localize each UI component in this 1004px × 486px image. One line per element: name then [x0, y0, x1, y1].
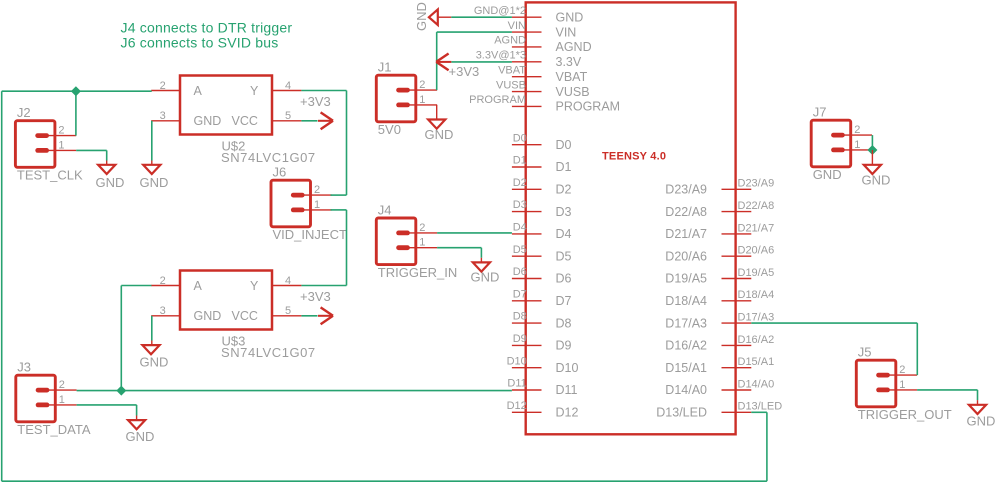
svg-text:3: 3	[160, 305, 166, 317]
svg-text:GND: GND	[194, 309, 222, 323]
svg-text:5V0: 5V0	[378, 122, 401, 137]
svg-text:GND: GND	[126, 429, 155, 444]
wire J5.1 to GND	[917, 390, 977, 405]
svg-text:3: 3	[160, 110, 166, 122]
svg-text:D3: D3	[556, 205, 572, 219]
teensy pin D19/A5	[665, 267, 774, 286]
teensy pin VBAT	[498, 64, 588, 83]
svg-text:D14/A0: D14/A0	[665, 383, 707, 397]
svg-text:D22/A8: D22/A8	[665, 205, 707, 219]
svg-text:VIN: VIN	[556, 25, 577, 39]
svg-text:D20/A6: D20/A6	[738, 245, 775, 257]
connector J4	[376, 203, 457, 280]
ground at J1	[425, 120, 454, 143]
svg-text:D5: D5	[556, 249, 572, 263]
svg-text:+3V3: +3V3	[300, 289, 331, 304]
svg-text:D23/A9: D23/A9	[665, 183, 707, 197]
svg-text:D0: D0	[556, 138, 572, 152]
svg-text:A: A	[194, 84, 203, 98]
svg-text:VCC: VCC	[232, 309, 258, 323]
ground at J4	[471, 262, 500, 284]
svg-text:2: 2	[899, 364, 905, 376]
svg-text:D10: D10	[556, 361, 579, 375]
svg-text:J4 connects to DTR trigger: J4 connects to DTR trigger	[121, 19, 293, 35]
svg-text:2: 2	[419, 222, 425, 234]
wire VIN to J1.2	[437, 32, 512, 90]
svg-text:D1: D1	[556, 160, 572, 174]
teensy pin AGND	[494, 35, 591, 54]
ground at J5	[967, 405, 996, 429]
connector J1	[376, 60, 437, 137]
teensy U1 box	[526, 2, 736, 434]
wire junction to J2.2	[75, 91, 77, 135]
svg-text:+3V3: +3V3	[449, 64, 480, 79]
svg-text:D19/A5: D19/A5	[665, 272, 707, 286]
svg-text:TEENSY 4.0: TEENSY 4.0	[602, 151, 666, 163]
svg-text:4: 4	[285, 275, 291, 287]
teensy pin D5	[512, 244, 572, 264]
teensy pin VUSB	[496, 79, 590, 98]
svg-text:VBAT: VBAT	[556, 70, 588, 84]
wire U$3.A to junction	[121, 286, 151, 391]
teensy pin VIN	[508, 20, 577, 39]
svg-text:1: 1	[899, 379, 905, 391]
svg-text:AGND: AGND	[494, 35, 526, 47]
svg-text:4: 4	[285, 80, 291, 92]
svg-text:2: 2	[160, 275, 166, 287]
supply +3V3 at U$2	[300, 94, 333, 129]
svg-text:1: 1	[854, 139, 860, 151]
svg-text:D21/A7: D21/A7	[665, 227, 707, 241]
svg-text:1: 1	[58, 139, 64, 151]
svg-text:PROGRAM: PROGRAM	[556, 100, 621, 114]
teensy pin D13/LED	[656, 401, 782, 420]
wire net D13 loop left+bottom	[2, 91, 767, 481]
svg-text:2: 2	[59, 379, 65, 391]
teensy pin 3.3V	[476, 50, 582, 69]
svg-text:VBAT: VBAT	[498, 64, 526, 76]
wire U$2.Y to J6.2	[301, 91, 346, 196]
svg-text:D8: D8	[513, 311, 527, 323]
wire GND pin	[451, 16, 512, 18]
teensy pin D0	[512, 132, 572, 152]
teensy pin GND	[474, 5, 583, 24]
svg-text:2: 2	[314, 184, 320, 196]
svg-text:D7: D7	[513, 288, 527, 300]
svg-text:AGND: AGND	[556, 40, 592, 54]
svg-text:D16/A2: D16/A2	[738, 334, 775, 346]
teensy pin D20/A6	[665, 245, 774, 264]
svg-text:D9: D9	[556, 339, 572, 353]
svg-text:SN74LVC1G07: SN74LVC1G07	[221, 345, 316, 360]
svg-text:GND: GND	[471, 270, 500, 285]
teensy pin D12	[507, 400, 579, 420]
teensy pin D16/A2	[665, 334, 774, 353]
ground at J7	[862, 165, 891, 188]
svg-text:D19/A5: D19/A5	[738, 267, 775, 279]
svg-text:D0: D0	[513, 132, 527, 144]
wire J3.1 to GND	[77, 405, 137, 420]
svg-text:D2: D2	[513, 177, 527, 189]
svg-text:2: 2	[419, 79, 425, 91]
svg-text:1: 1	[419, 237, 425, 249]
svg-text:J1: J1	[378, 60, 392, 75]
teensy pin D23/A9	[665, 178, 774, 197]
teensy pin D14/A0	[665, 378, 774, 397]
teensy pin D3	[512, 199, 572, 219]
svg-text:GND: GND	[813, 167, 842, 182]
svg-text:D3: D3	[513, 199, 527, 211]
svg-text:GND: GND	[862, 173, 891, 188]
svg-text:GND: GND	[556, 10, 584, 24]
svg-text:D12: D12	[556, 406, 579, 420]
ground at U$3	[140, 345, 169, 369]
svg-text:SN74LVC1G07: SN74LVC1G07	[221, 150, 316, 165]
svg-text:D5: D5	[513, 244, 527, 256]
wire J7 pins to GND	[871, 135, 873, 150]
svg-text:D4: D4	[513, 222, 527, 234]
connector J5	[856, 345, 951, 422]
connector J2	[15, 105, 83, 182]
svg-text:D15/A1: D15/A1	[738, 356, 775, 368]
svg-text:D1: D1	[513, 155, 527, 167]
svg-text:1: 1	[314, 199, 320, 211]
wire J6.1 to U$3.Y	[301, 210, 346, 286]
svg-text:TEST_CLK: TEST_CLK	[17, 168, 83, 183]
svg-text:J7: J7	[813, 105, 827, 120]
wire J4.1 to GND	[437, 248, 481, 263]
svg-text:D17/A3: D17/A3	[665, 316, 707, 330]
teensy label TEENSY 4.0	[602, 151, 666, 163]
ground at J3	[126, 420, 155, 444]
wire TRIGGER_IN to D4	[437, 232, 512, 234]
svg-text:D22/A8: D22/A8	[738, 200, 775, 212]
teensy pin D9	[512, 333, 572, 353]
svg-text:J2: J2	[17, 105, 31, 120]
junction at U$2.A tap	[71, 86, 81, 96]
svg-text:2: 2	[160, 80, 166, 92]
svg-text:5: 5	[285, 110, 291, 122]
junction at J7	[867, 145, 877, 155]
svg-text:J4: J4	[378, 203, 392, 218]
teensy pin PROGRAM	[469, 94, 620, 113]
ground at J2	[96, 165, 125, 190]
svg-text:D12: D12	[507, 400, 527, 412]
junction on TEST_DATA net	[116, 386, 126, 396]
wire U$2.3 to GND	[151, 121, 153, 165]
teensy pin D15/A1	[665, 356, 774, 375]
svg-text:D2: D2	[556, 183, 572, 197]
op-amp buffer U$2	[151, 76, 316, 166]
svg-text:GND: GND	[194, 114, 222, 128]
svg-text:GND: GND	[140, 355, 169, 370]
svg-text:D6: D6	[556, 272, 572, 286]
wire J7 junction stem	[871, 150, 873, 165]
svg-text:J6 connects to SVID bus: J6 connects to SVID bus	[121, 35, 279, 51]
svg-text:D18/A4: D18/A4	[738, 289, 775, 301]
svg-text:D11: D11	[556, 383, 578, 397]
svg-text:+3V3: +3V3	[300, 94, 331, 109]
teensy pin D11	[507, 378, 577, 398]
svg-text:2: 2	[58, 125, 64, 137]
connector J6	[271, 165, 347, 242]
svg-text:VID_INJECT: VID_INJECT	[273, 227, 347, 242]
svg-text:3.3V: 3.3V	[556, 55, 582, 69]
svg-text:J6: J6	[273, 165, 287, 180]
svg-text:D13/LED: D13/LED	[656, 406, 707, 420]
svg-text:TRIGGER_IN: TRIGGER_IN	[378, 265, 457, 280]
teensy pin D8	[512, 311, 572, 331]
teensy pin D21/A7	[665, 222, 774, 241]
svg-text:VCC: VCC	[232, 114, 258, 128]
svg-text:D21/A7: D21/A7	[738, 222, 775, 234]
teensy pin D2	[512, 177, 572, 197]
teensy pin D6	[512, 266, 572, 286]
svg-text:GND@1*2: GND@1*2	[474, 5, 526, 17]
svg-text:GND: GND	[967, 413, 996, 428]
svg-text:D20/A6: D20/A6	[665, 249, 707, 263]
svg-text:GND: GND	[425, 127, 454, 142]
svg-text:D11: D11	[507, 378, 526, 390]
svg-text:Y: Y	[250, 84, 259, 98]
note text J4/J6	[121, 19, 293, 50]
svg-text:TRIGGER_OUT: TRIGGER_OUT	[858, 407, 952, 422]
svg-text:D16/A2: D16/A2	[665, 339, 707, 353]
connector J7	[811, 105, 872, 182]
teensy pin D1	[512, 155, 572, 175]
connector J3	[16, 360, 91, 437]
svg-text:2: 2	[854, 124, 860, 136]
wire J2.1 to GND	[76, 150, 107, 165]
svg-text:PROGRAM: PROGRAM	[469, 94, 526, 106]
supply +3V3 at teensy	[436, 54, 479, 80]
wire J1.1 to GND	[436, 105, 438, 120]
svg-text:D10: D10	[507, 355, 527, 367]
svg-text:D15/A1: D15/A1	[665, 361, 707, 375]
wire U$3.3 to GND	[151, 316, 153, 345]
svg-text:D7: D7	[556, 294, 572, 308]
svg-text:GND: GND	[96, 175, 125, 190]
wire U$2.5 stub	[301, 120, 317, 122]
svg-text:A: A	[194, 279, 203, 293]
supply +3V3 at U$3	[300, 289, 333, 324]
wire TEST_DATA to D11	[77, 390, 512, 392]
teensy pin D7	[512, 288, 572, 308]
teensy pin D22/A8	[665, 200, 774, 219]
svg-text:VIN: VIN	[508, 20, 526, 32]
svg-text:GND: GND	[140, 175, 169, 190]
svg-text:J5: J5	[858, 345, 872, 360]
wire 3.3V	[451, 61, 512, 63]
svg-text:D23/A9: D23/A9	[738, 178, 775, 190]
svg-text:D17/A3: D17/A3	[738, 312, 775, 324]
svg-text:Y: Y	[250, 279, 259, 293]
svg-text:VUSB: VUSB	[556, 85, 590, 99]
svg-text:TEST_DATA: TEST_DATA	[17, 422, 91, 437]
svg-text:1: 1	[419, 94, 425, 106]
svg-text:D18/A4: D18/A4	[665, 294, 707, 308]
ground at U$2	[140, 165, 169, 190]
svg-text:5: 5	[285, 305, 291, 317]
svg-text:J3: J3	[17, 360, 31, 375]
svg-text:D9: D9	[513, 333, 527, 345]
teensy pin D10	[507, 355, 579, 375]
ground supply at teensy GND pin	[414, 2, 451, 31]
teensy pin D4	[512, 222, 572, 242]
svg-text:D8: D8	[556, 316, 572, 330]
svg-text:1: 1	[59, 394, 65, 406]
svg-text:D14/A0: D14/A0	[738, 378, 775, 390]
svg-text:D4: D4	[556, 227, 572, 241]
svg-text:3.3V@1*3: 3.3V@1*3	[476, 50, 526, 62]
svg-text:VUSB: VUSB	[496, 79, 526, 91]
teensy pin D18/A4	[665, 289, 774, 308]
wire U$3.5 stub	[301, 315, 317, 317]
svg-text:GND: GND	[414, 2, 429, 31]
op-amp buffer U$3	[151, 271, 316, 361]
wire D17/A3 to TRIGGER_OUT	[751, 323, 917, 375]
svg-text:D6: D6	[513, 266, 527, 278]
teensy pin D17/A3	[665, 312, 774, 331]
svg-text:D13/LED: D13/LED	[738, 401, 783, 413]
